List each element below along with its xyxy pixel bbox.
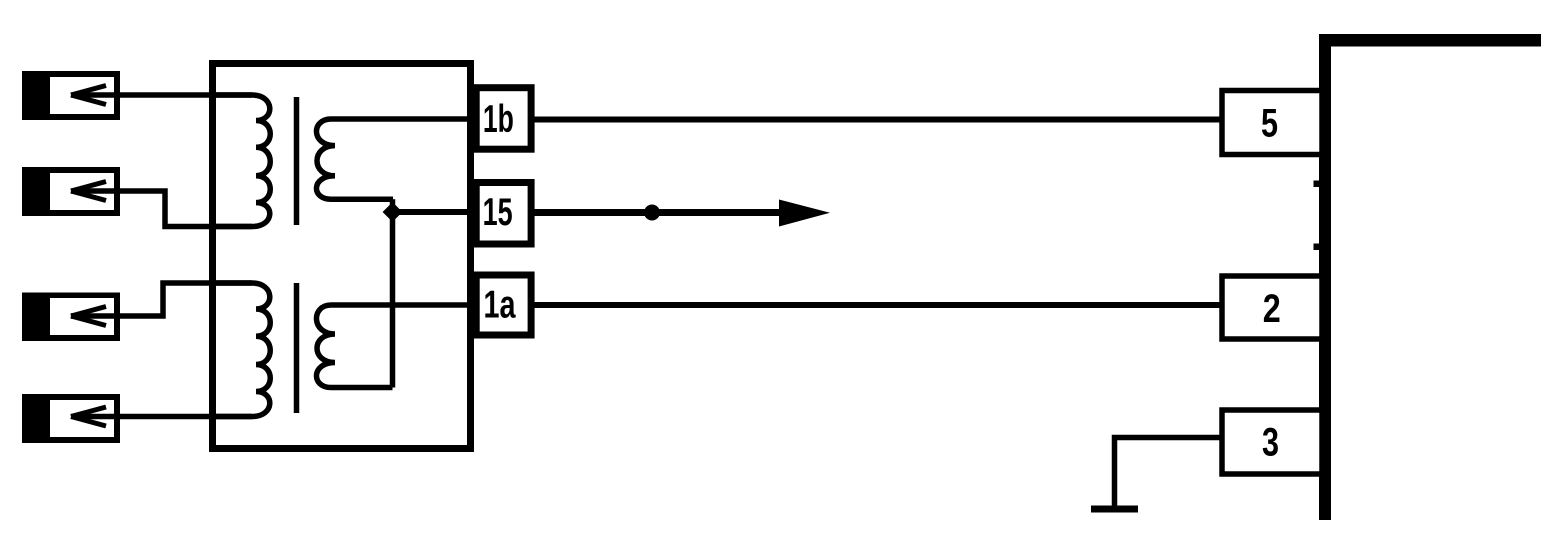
secondary winding L2 (upper transformer): [316, 119, 468, 199]
wire junction to terminal 15: [393, 209, 471, 215]
svg-text:2: 2: [1263, 287, 1281, 331]
wire pin 3 to ground: [1115, 438, 1223, 507]
spark plug connector P4: [22, 394, 120, 443]
svg-text:3: 3: [1262, 421, 1279, 465]
pin nub lower: [1314, 244, 1320, 251]
spark plug connector P1: [22, 71, 120, 120]
wire connector3 to primary L3 top: [71, 283, 252, 316]
pin nub upper: [1314, 181, 1320, 188]
wire terminal 1a to pin 2: [534, 302, 1224, 308]
bus bar (connector strip): [1319, 34, 1331, 520]
terminal 1b: [476, 88, 531, 150]
terminal 1a: [476, 275, 531, 335]
connector pin 3: [1222, 410, 1322, 474]
primary winding L1 (upper transformer): [215, 95, 270, 227]
ignition coil component box T1: [213, 64, 471, 449]
core of upper transformer: [294, 97, 300, 225]
ground symbol: [1091, 506, 1138, 513]
wire junction down to secondary L4 bottom: [390, 212, 396, 388]
arrowhead (continuation of circuit 15): [779, 200, 830, 227]
svg-text:5: 5: [1261, 102, 1278, 146]
spark plug connector P3: [22, 293, 120, 342]
connector pin 2: [1222, 276, 1322, 339]
wire terminal 1b to pin 5: [534, 117, 1224, 123]
wire connector1 to primary L1 top: [71, 92, 252, 98]
terminal 15: [476, 183, 531, 245]
primary winding L3 (lower transformer): [215, 283, 270, 417]
supply line (top): [1319, 34, 1541, 47]
svg-text:1a: 1a: [484, 284, 516, 327]
spark plug connector P2: [22, 167, 120, 216]
svg-text:15: 15: [483, 191, 513, 234]
junction dot on 15 wire: [644, 205, 660, 221]
wire secondary L2 bottom to junction: [390, 199, 396, 212]
secondary winding L4 (lower transformer): [316, 305, 468, 388]
wire connector4 to primary L3 bottom: [71, 414, 252, 420]
wire connector2 to primary L1 bottom: [71, 191, 252, 227]
core of lower transformer: [294, 283, 300, 413]
wire terminal 15 output: [534, 209, 783, 216]
connector pin 5: [1222, 91, 1322, 155]
svg-text:1b: 1b: [483, 98, 514, 141]
junction node (diamond): [384, 204, 401, 221]
